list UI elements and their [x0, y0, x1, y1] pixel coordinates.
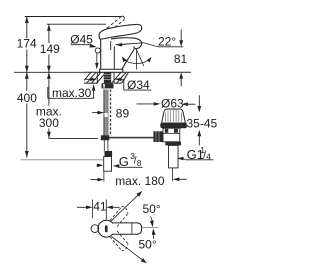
pop-up knob arrow down	[96, 53, 98, 63]
svg-text:22°: 22°	[158, 34, 176, 48]
arrow up 400 below deck	[25, 72, 29, 79]
svg-text:8: 8	[137, 158, 142, 168]
svg-text:89: 89	[116, 107, 130, 121]
deck hatching	[80, 70, 133, 85]
svg-text:50°: 50°	[143, 202, 161, 216]
svg-text:149: 149	[40, 42, 60, 56]
arrow down max300 bottom	[47, 132, 51, 139]
drain body	[163, 128, 180, 142]
dimension max180 right extension	[171, 168, 173, 181]
pipes below joint	[103, 140, 105, 151]
deck cross-section	[84, 72, 191, 83]
svg-text:174: 174	[17, 37, 37, 51]
handle body top view	[98, 220, 115, 237]
arrow down 400 bottom	[25, 151, 29, 158]
aerator circle top view	[91, 225, 99, 233]
svg-text:41: 41	[93, 200, 107, 214]
svg-text:35-45: 35-45	[187, 117, 218, 131]
extension line 400 bottom reference (gray)	[21, 159, 108, 161]
svg-text:400: 400	[17, 91, 37, 105]
dimension 35-45	[198, 95, 200, 107]
extension line deck level left	[14, 71, 84, 73]
G3/8 connector nut	[105, 151, 113, 156]
faucet body	[100, 39, 102, 69]
tailpipe	[169, 145, 179, 168]
rod joint	[101, 135, 110, 140]
angle arc with arrowheads	[124, 59, 150, 64]
arrow down 174 at deck	[25, 66, 29, 73]
lever slot	[105, 225, 108, 232]
dimension max180 left arrow	[91, 179, 99, 181]
dashed lever rotated up 50	[110, 207, 128, 227]
arrow Ø34 right side pointing left at hole	[115, 78, 122, 82]
faucet spout	[111, 38, 142, 49]
dimension 81 vertical	[180, 30, 182, 42]
drain flange	[160, 123, 187, 129]
dimension max180 left extension	[103, 171, 105, 182]
horizontal ball rod	[109, 137, 153, 139]
pop-up knob circle	[95, 48, 100, 53]
supply pipe gray bar	[104, 90, 108, 114]
arrow pointing right at pipe (G3/8 pair)	[97, 164, 100, 166]
spout underside curve	[122, 49, 134, 69]
centerline right of lever (gray)	[142, 227, 159, 229]
hourglass angle arrows at centerline	[151, 217, 153, 223]
leader line from body arrow to 22 label	[116, 43, 158, 47]
tailpipe collar	[165, 142, 181, 146]
arrow up 149 top	[47, 24, 51, 31]
extension line top (174 reference)	[25, 16, 121, 18]
svg-text:50°: 50°	[139, 238, 157, 252]
dimension max180 right arrow	[173, 178, 180, 182]
mounting nut	[102, 83, 114, 88]
dimension line 149/max300 vertical	[48, 24, 50, 138]
deck hole edges	[96, 72, 98, 83]
arrow G3/8 pointing left at hose	[113, 164, 120, 168]
dimension 89 leader	[92, 112, 98, 114]
arrow up 174 top	[25, 17, 29, 24]
faucet base plate	[100, 69, 123, 72]
dimension 41	[92, 200, 94, 219]
drain Ø63 dimension	[137, 103, 157, 105]
arrow max.30 to deck bottom	[93, 90, 95, 98]
plug dome hatch	[165, 110, 181, 122]
arrow Ø34 left side pointing right at hole	[85, 78, 91, 80]
dashed lever rotated down 50	[110, 231, 128, 251]
faucet lever solid	[99, 24, 142, 39]
water stream vertical line	[136, 50, 138, 70]
knurled nut on rod	[153, 131, 163, 142]
50 degree direction line upper with arrow	[111, 193, 140, 221]
water stream angled line	[136, 49, 144, 66]
faucet lever raised dashed	[103, 18, 123, 34]
svg-text:300: 300	[39, 116, 59, 130]
extension line max300 bottom reference	[49, 137, 99, 139]
pop-up rod dashed	[110, 90, 112, 136]
lever bar top view	[113, 223, 142, 234]
svg-text:81: 81	[174, 52, 188, 66]
drain plug dome	[162, 109, 186, 123]
svg-text:max. 180: max. 180	[115, 174, 165, 188]
threaded shank	[104, 72, 111, 83]
dashed lever tip cap	[120, 16, 125, 20]
arrow G1 1/4 pointing left at tailpipe	[177, 157, 184, 161]
arrow up max300 below deck	[47, 72, 51, 79]
extension line lever rest (149 reference)	[47, 23, 106, 25]
dimension line 174/400 vertical	[26, 17, 28, 158]
50 degree direction line lower with arrow	[112, 237, 145, 262]
arrow Ø45 right pointing left at body	[116, 43, 123, 47]
svg-text:Ø63: Ø63	[161, 97, 184, 111]
hose end tube	[104, 157, 112, 172]
arrow down 149 at deck	[47, 66, 51, 73]
